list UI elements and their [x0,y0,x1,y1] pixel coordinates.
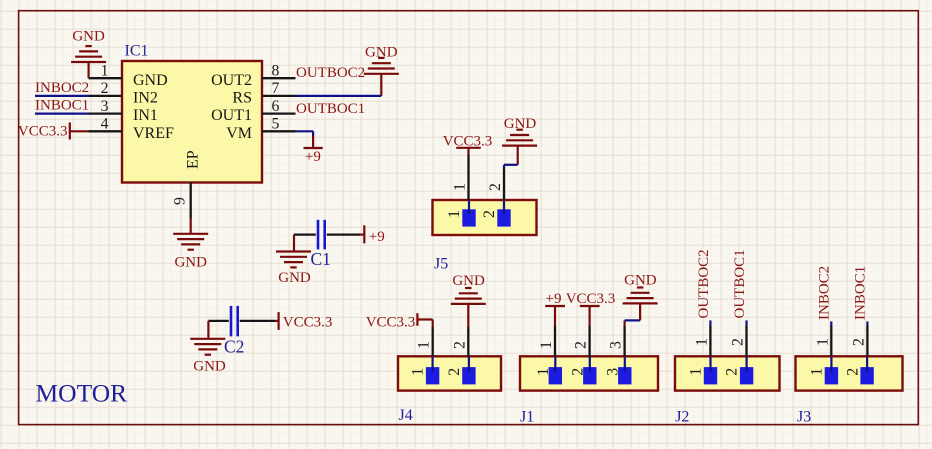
svg-text:OUTBOC1: OUTBOC1 [296,101,365,117]
svg-text:4: 4 [101,116,109,133]
svg-text:1: 1 [452,183,469,191]
svg-text:2: 2 [844,368,861,376]
svg-text:VM: VM [226,125,252,142]
svg-text:EP: EP [185,150,202,169]
svg-text:IC1: IC1 [125,43,149,60]
svg-text:C1: C1 [311,249,331,269]
svg-text:8: 8 [272,62,280,79]
svg-text:5: 5 [272,116,280,133]
svg-text:2: 2 [850,338,867,346]
svg-text:1: 1 [535,368,552,376]
svg-text:GND: GND [504,116,537,132]
svg-text:C2: C2 [224,337,244,357]
svg-text:VCC3.3: VCC3.3 [366,315,416,331]
svg-text:1: 1 [809,368,826,376]
svg-text:6: 6 [272,98,280,115]
svg-text:VCC3.3: VCC3.3 [566,291,616,307]
svg-text:+9: +9 [305,149,321,165]
svg-text:GND: GND [365,45,398,61]
svg-text:GND: GND [72,29,105,45]
svg-text:1: 1 [538,341,555,349]
svg-text:1: 1 [693,338,710,346]
svg-text:OUTBOC1: OUTBOC1 [732,249,748,318]
svg-text:INBOC2: INBOC2 [816,266,832,320]
svg-text:2: 2 [101,80,109,97]
svg-text:MOTOR: MOTOR [36,379,128,408]
svg-text:2: 2 [570,368,587,376]
svg-text:1: 1 [416,341,433,349]
svg-text:2: 2 [730,338,747,346]
svg-text:OUTBOC2: OUTBOC2 [696,249,712,318]
svg-text:J4: J4 [399,407,413,424]
svg-text:1: 1 [688,368,705,376]
svg-text:J3: J3 [797,409,811,426]
svg-text:IN2: IN2 [133,90,158,107]
svg-text:OUT2: OUT2 [211,72,252,89]
svg-text:2: 2 [724,368,741,376]
svg-text:3: 3 [101,98,109,115]
svg-text:VCC3.3: VCC3.3 [283,315,333,331]
svg-text:J5: J5 [434,255,448,272]
svg-text:2: 2 [481,210,498,218]
svg-text:1: 1 [814,338,831,346]
svg-text:INBOC1: INBOC1 [35,98,89,114]
svg-text:7: 7 [272,80,280,97]
svg-text:J2: J2 [675,409,689,426]
svg-text:2: 2 [487,183,504,191]
svg-text:9: 9 [172,197,189,205]
svg-text:2: 2 [573,341,590,349]
svg-text:+9: +9 [369,229,385,245]
svg-text:2: 2 [446,368,463,376]
svg-text:GND: GND [278,270,311,286]
svg-text:INBOC1: INBOC1 [853,266,869,320]
svg-text:OUT1: OUT1 [211,107,252,124]
svg-text:GND: GND [452,273,485,289]
svg-text:VCC3.3: VCC3.3 [443,133,493,149]
svg-text:VCC3.3: VCC3.3 [18,123,68,139]
svg-text:INBOC2: INBOC2 [35,80,89,96]
svg-text:GND: GND [174,255,207,271]
svg-text:IN1: IN1 [133,107,158,124]
svg-text:VREF: VREF [133,125,174,142]
svg-text:RS: RS [232,90,252,107]
svg-text:3: 3 [605,368,622,376]
svg-text:2: 2 [451,341,468,349]
svg-text:J1: J1 [520,409,534,426]
svg-text:GND: GND [624,273,657,289]
svg-text:OUTBOC2: OUTBOC2 [296,65,365,81]
svg-text:+9: +9 [546,291,562,307]
svg-text:1: 1 [446,210,463,218]
svg-text:3: 3 [608,341,625,349]
svg-text:GND: GND [133,72,168,89]
svg-text:1: 1 [410,368,427,376]
svg-text:1: 1 [101,62,109,79]
svg-text:GND: GND [193,358,226,374]
